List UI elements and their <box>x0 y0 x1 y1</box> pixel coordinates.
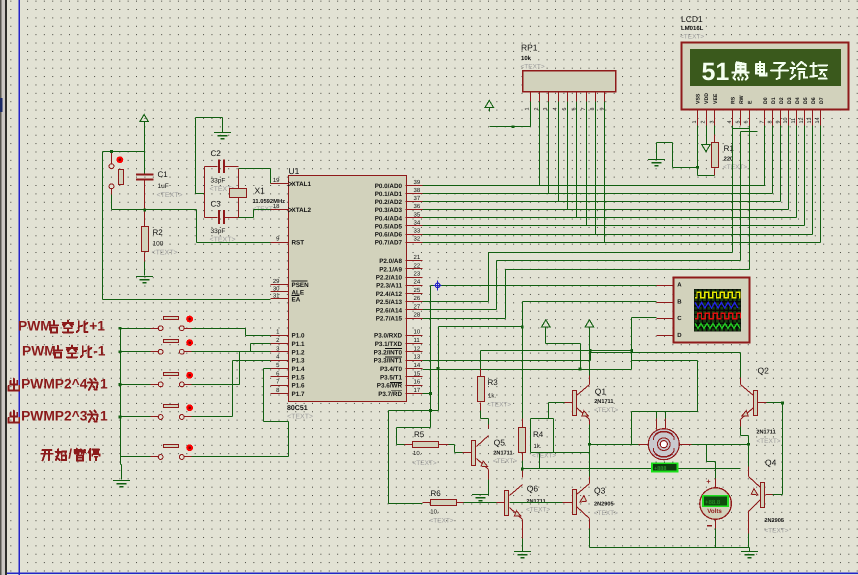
svg-text:<TEXT>: <TEXT> <box>756 438 780 445</box>
push button reset <box>109 164 114 169</box>
svg-text:33pF: 33pF <box>211 228 226 235</box>
svg-text:30: 30 <box>273 285 280 292</box>
svg-text:P3.0/RXD: P3.0/RXD <box>374 333 402 340</box>
pin 14 P3.4/T0 <box>406 368 423 370</box>
svg-text:D: D <box>677 332 682 339</box>
svg-text:<TEXT>: <TEXT> <box>157 192 183 199</box>
svg-text:P3.4/T0: P3.4/T0 <box>380 366 403 373</box>
wire LCD D6 drop <box>812 126 814 235</box>
LCD1 LM016L display <box>682 43 849 110</box>
wire Q2 emitter chain <box>740 420 742 427</box>
svg-text:C1: C1 <box>158 170 169 179</box>
wire R1 bottom / VSS / ground <box>714 169 716 176</box>
wire LCD D0 drop <box>764 126 766 186</box>
wire XTAL1 <box>239 168 271 170</box>
ground LCD <box>648 160 665 166</box>
svg-text:P3.2/INT0: P3.2/INT0 <box>374 349 403 356</box>
ground Q6 <box>514 552 531 558</box>
svg-text:10.: 10. <box>430 509 439 516</box>
pin 5 LCD RW <box>740 109 742 126</box>
pin 6 RP1 <box>576 93 578 102</box>
wire XTAL2 <box>239 217 254 219</box>
pin 2 RP1 <box>539 93 541 102</box>
transistor Q5 2N1711 <box>472 441 476 466</box>
svg-text:Q3: Q3 <box>594 486 606 496</box>
resistor R2 <box>142 227 149 252</box>
wire button common <box>120 329 122 465</box>
svg-text:P1.7: P1.7 <box>292 391 305 398</box>
svg-text:P2.2/A10: P2.2/A10 <box>376 275 403 282</box>
svg-text:<TEXT>: <TEXT> <box>413 460 437 467</box>
pin 33 P0.6/AD6 <box>406 234 423 236</box>
pin 29 PSEN <box>271 284 289 286</box>
pin 1 P1.0 <box>271 335 289 337</box>
pin 9 RP1 <box>604 93 606 102</box>
svg-text:PWMP2^3: PWMP2^3 <box>21 408 88 423</box>
svg-text:+: + <box>706 477 711 486</box>
pin 9 RST <box>271 242 289 244</box>
svg-text:11: 11 <box>791 118 797 124</box>
wire RP1 pin4 drop <box>558 102 560 202</box>
pin 22 P2.1/A9 <box>406 268 423 270</box>
wire P0.7 bus <box>423 242 821 244</box>
pin 8 LCD D1 <box>772 109 774 126</box>
pin 16 P3.6/WR <box>406 385 423 387</box>
svg-text:+1: +1 <box>89 318 105 333</box>
sheet corner marker <box>14 568 24 575</box>
resistor R6 <box>431 500 457 506</box>
svg-text:21: 21 <box>414 254 421 261</box>
wire to P1.0 <box>192 328 246 330</box>
pin 10 LCD D3 <box>788 109 790 126</box>
wire mid links <box>530 419 532 453</box>
wire RP1 pin9 drop <box>604 102 606 243</box>
pin 8 P1.7 <box>271 393 289 395</box>
wire P3.7 tap <box>423 393 431 395</box>
svg-text:P3.7/RD: P3.7/RD <box>378 391 402 398</box>
svg-text:PSEN: PSEN <box>292 282 310 289</box>
wire LCD D7 drop <box>820 126 822 243</box>
svg-text:D7: D7 <box>819 97 825 104</box>
svg-text:80C51: 80C51 <box>287 405 308 412</box>
svg-text:U1: U1 <box>289 166 300 176</box>
resistor pack RP1 <box>523 71 616 92</box>
node marker blue cross <box>434 280 442 290</box>
wire scope A net (P3.7/R5) <box>431 285 657 287</box>
scope waveform B blue <box>695 302 738 308</box>
svg-text:P0.3/AD3: P0.3/AD3 <box>375 207 403 214</box>
svg-text:P2.4/A12: P2.4/A12 <box>376 291 403 298</box>
svg-text:XTAL1: XTAL1 <box>292 181 312 188</box>
pin 21 P2.0/A8 <box>406 260 423 262</box>
wire RS/RW/E jogs <box>733 128 750 130</box>
pin 28 P2.7/A15 <box>406 318 423 320</box>
svg-text:D4: D4 <box>795 97 801 104</box>
svg-text:P2.5/A13: P2.5/A13 <box>376 299 403 306</box>
svg-text:P1.6: P1.6 <box>292 383 305 390</box>
capacitor C2 <box>219 159 224 173</box>
pin 12 P3.2/INT0 <box>406 351 423 353</box>
push button B3 <box>158 382 163 387</box>
push button B2 <box>158 349 163 354</box>
svg-text:P0.0/AD0: P0.0/AD0 <box>375 183 403 190</box>
svg-text:P1.4: P1.4 <box>292 366 305 373</box>
voltmeter <box>700 488 732 520</box>
wire motor left <box>639 444 649 446</box>
svg-text:P2.6/A14: P2.6/A14 <box>376 307 403 314</box>
svg-text:P3.5/T1: P3.5/T1 <box>380 374 403 381</box>
svg-text:<TEXT>: <TEXT> <box>680 34 704 41</box>
pin 11 LCD D4 <box>796 109 798 126</box>
wire <box>103 151 145 153</box>
svg-text:33: 33 <box>414 227 421 234</box>
wire VCC to Q2 collector <box>590 352 741 354</box>
resistor R3 <box>478 377 485 402</box>
pin 7 RP1 <box>586 93 588 102</box>
wire RP1 pin6 drop <box>576 102 578 218</box>
wire R4 stubs <box>522 419 524 428</box>
svg-text:VDD: VDD <box>704 93 710 104</box>
svg-text:17: 17 <box>414 387 421 394</box>
wire to P1.4 squiggle <box>192 456 289 458</box>
svg-text:39: 39 <box>414 179 421 186</box>
resistor R5 <box>413 442 439 448</box>
wire <box>545 331 547 344</box>
wire motor right <box>680 444 692 446</box>
svg-text:2N1711: 2N1711 <box>526 499 545 505</box>
wire motor top link <box>632 411 698 413</box>
push button B5 <box>158 455 163 460</box>
svg-text:3: 3 <box>709 121 715 124</box>
pin 4 RP1 <box>558 93 560 102</box>
svg-text:VEE: VEE <box>713 93 719 104</box>
pin 9 LCD D2 <box>780 109 782 126</box>
svg-text:37: 37 <box>414 195 421 202</box>
svg-text:+888: +888 <box>654 466 666 472</box>
svg-text:-1: -1 <box>93 343 106 358</box>
wire <box>144 253 146 262</box>
pin 7 LCD D0 <box>764 109 766 126</box>
pin 7 P1.6 <box>271 385 289 387</box>
svg-text:P0.6/AD6: P0.6/AD6 <box>375 231 403 238</box>
svg-text:D1: D1 <box>771 97 777 104</box>
wire cap common <box>204 167 206 218</box>
svg-text:7: 7 <box>581 108 587 111</box>
wire <box>144 126 146 174</box>
svg-text:15: 15 <box>414 370 421 377</box>
pin 13 P3.3/INT1 <box>406 360 423 362</box>
svg-text:VSS: VSS <box>696 93 702 104</box>
svg-text:35: 35 <box>414 211 421 218</box>
push button B4 <box>158 415 163 420</box>
svg-text:<TEXT>: <TEXT> <box>723 164 747 171</box>
node label start/pause <box>42 449 51 451</box>
svg-text:P3.3/INT1: P3.3/INT1 <box>374 358 403 365</box>
ground Q5 <box>472 495 489 501</box>
pin 3 P1.2 <box>271 351 289 353</box>
svg-text:34: 34 <box>414 219 421 226</box>
svg-text:13: 13 <box>414 354 421 361</box>
pin 18 XTAL2 <box>271 209 289 211</box>
pin 3 RP1 <box>548 93 550 102</box>
svg-text:23: 23 <box>414 271 421 278</box>
svg-text:P0.1/AD1: P0.1/AD1 <box>375 191 403 198</box>
wire scope C net (R3 top) <box>631 318 633 370</box>
transistor Q3 2N2905 <box>573 490 577 515</box>
svg-text:P3.1/TXD: P3.1/TXD <box>375 341 403 348</box>
svg-text:RW: RW <box>739 95 745 104</box>
wire bottom rail <box>590 547 750 549</box>
svg-text:4: 4 <box>553 108 559 111</box>
svg-text:1: 1 <box>525 108 531 111</box>
wire C1 to R2 <box>144 181 146 227</box>
svg-text:D2: D2 <box>779 97 785 104</box>
svg-text:D0: D0 <box>763 97 769 104</box>
svg-text:Q6: Q6 <box>527 484 539 494</box>
sheet border blue <box>18 0 20 575</box>
svg-text:PWM: PWM <box>22 343 56 358</box>
svg-text:25: 25 <box>414 287 421 294</box>
svg-text:19: 19 <box>273 177 280 184</box>
svg-text:33pF: 33pF <box>211 178 226 185</box>
svg-text:RST: RST <box>292 240 305 247</box>
svg-text:A: A <box>677 282 682 289</box>
svg-text:36: 36 <box>414 203 421 210</box>
crystal X1 <box>238 169 240 189</box>
wire voltmeter minus <box>715 520 717 529</box>
svg-text:11.0592MHz: 11.0592MHz <box>253 198 286 205</box>
svg-text:29: 29 <box>273 278 280 285</box>
svg-text:X1: X1 <box>255 186 266 196</box>
pin 25 P2.4/A12 <box>406 293 423 295</box>
svg-text:5: 5 <box>735 121 741 124</box>
svg-text:<TEXT>: <TEXT> <box>521 64 545 71</box>
pin 15 P3.5/T1 <box>406 376 423 378</box>
svg-text:2N2905: 2N2905 <box>594 502 614 508</box>
pin 10 P3.0/RXD <box>406 335 423 337</box>
svg-text:<TEXT>: <TEXT> <box>764 528 788 535</box>
wire Q6 collector rail <box>523 468 741 470</box>
wire P3.4 drive line <box>423 369 632 371</box>
wire E chain to P2.7 <box>749 126 751 270</box>
power symbol near RP1 <box>485 100 493 107</box>
svg-text:D3: D3 <box>787 97 793 104</box>
pin 1 LCD VSS <box>697 109 699 126</box>
svg-text:XTAL2: XTAL2 <box>292 207 312 214</box>
pin 24 P2.3/A11 <box>406 285 423 287</box>
svg-text:<TEXT>: <TEXT> <box>152 250 178 257</box>
svg-text:RP1: RP1 <box>521 43 538 53</box>
svg-text:R6: R6 <box>431 489 442 498</box>
svg-text:24: 24 <box>414 279 421 286</box>
op chip U1 80C51 <box>289 176 407 402</box>
svg-text:P1.3: P1.3 <box>292 358 305 365</box>
pin 35 P0.4/AD4 <box>406 217 423 219</box>
wire Q1 collector feed <box>589 331 591 376</box>
wire R3 bottom to Q5 collector <box>480 403 482 411</box>
wire RP1 pin3 drop <box>548 102 550 194</box>
pin 17 P3.7/RD <box>406 393 423 395</box>
svg-text:E: E <box>747 100 753 104</box>
svg-text:6: 6 <box>744 121 750 124</box>
ground bottom right <box>741 552 758 558</box>
svg-text:9: 9 <box>775 121 781 124</box>
svg-text:1: 1 <box>100 376 108 391</box>
wire RP1 pin1 power <box>490 126 531 128</box>
svg-text:C2: C2 <box>211 149 222 158</box>
wire P0.3 bus <box>423 209 789 211</box>
svg-text:P2.3/A11: P2.3/A11 <box>376 283 402 290</box>
svg-text:<TEXT>: <TEXT> <box>493 458 517 465</box>
node label out PWM P2^4 <box>13 379 15 391</box>
svg-text:RS: RS <box>731 96 737 104</box>
svg-text:P1.5: P1.5 <box>292 374 305 381</box>
svg-text:C3: C3 <box>211 200 222 209</box>
svg-text:PWM: PWM <box>18 318 52 333</box>
wire P0.1 bus <box>423 193 773 195</box>
svg-text:LCD1: LCD1 <box>681 14 703 24</box>
svg-text:R2: R2 <box>153 228 164 237</box>
wire scope B net (R4 top) <box>523 301 657 303</box>
transistor Q2 2N1711 <box>754 391 758 416</box>
pin 6 P1.5 <box>271 376 289 378</box>
svg-text:1: 1 <box>100 408 108 423</box>
wire R3 top rail <box>481 350 633 352</box>
svg-text:51: 51 <box>702 58 730 86</box>
svg-text:10.: 10. <box>413 450 422 457</box>
wire P3.3 tap <box>423 360 591 362</box>
pin 5 P1.4 <box>271 368 289 370</box>
svg-text:<TEXT>: <TEXT> <box>430 518 454 525</box>
pin 36 P0.3/AD3 <box>406 209 423 211</box>
svg-text:P2.0/A8: P2.0/A8 <box>379 258 402 265</box>
wire Q2 collector <box>740 378 742 385</box>
svg-text:28: 28 <box>414 312 421 319</box>
svg-text:10k: 10k <box>521 55 532 62</box>
power symbol VCC top-left <box>140 115 148 122</box>
svg-text:18: 18 <box>273 203 280 210</box>
svg-text:1uF: 1uF <box>158 183 169 190</box>
svg-text:Q4: Q4 <box>765 458 777 468</box>
scope waveform C red <box>695 313 741 318</box>
pin 12 LCD D5 <box>804 109 806 126</box>
scope waveform D green <box>695 323 740 328</box>
pin 31 EA <box>271 298 289 300</box>
wire to P1.3 <box>192 416 233 418</box>
svg-text:32: 32 <box>414 236 421 243</box>
svg-text:D5: D5 <box>803 97 809 104</box>
svg-text:Volts: Volts <box>707 508 722 515</box>
svg-text:R3: R3 <box>488 378 499 387</box>
svg-text:C: C <box>677 315 682 322</box>
window chrome left edge <box>0 0 2 575</box>
wire Q1 base drive <box>531 418 554 420</box>
svg-text:R5: R5 <box>414 430 425 439</box>
svg-text:38: 38 <box>414 187 421 194</box>
wire LCD D2 drop <box>780 126 782 202</box>
pin 8 RP1 <box>595 93 597 102</box>
pin 14 LCD D7 <box>820 109 822 126</box>
wire RP1 pin2 drop <box>539 102 541 186</box>
wire R5 to Q5 base <box>454 445 456 453</box>
wire LCD D4 drop <box>796 126 798 218</box>
wire EA pull line <box>102 152 104 300</box>
svg-text:8: 8 <box>767 121 773 124</box>
svg-text:P1.0: P1.0 <box>292 333 305 340</box>
wire RS chain to P2.5 <box>732 126 734 253</box>
capacitor C3 <box>219 210 224 224</box>
ground buttons <box>113 481 130 487</box>
svg-text:P0.7/AD7: P0.7/AD7 <box>375 240 403 247</box>
wire VSS down <box>697 126 699 168</box>
transistor Q6 2N1711 <box>505 491 509 516</box>
svg-text:P1.2: P1.2 <box>292 349 305 356</box>
wire VEE to R1 <box>714 126 716 135</box>
wire P0.4 bus <box>423 217 797 219</box>
svg-text:2N1711: 2N1711 <box>493 451 512 457</box>
pin 19 XTAL1 <box>271 183 289 185</box>
svg-text:10: 10 <box>414 329 421 336</box>
capacitor C1 <box>136 174 154 179</box>
svg-text:14: 14 <box>414 362 421 369</box>
pin 3 LCD VEE <box>714 109 716 126</box>
svg-text:16: 16 <box>414 379 421 386</box>
svg-text:11: 11 <box>414 337 421 344</box>
svg-text:26: 26 <box>414 295 421 302</box>
svg-text:R4: R4 <box>533 430 544 439</box>
svg-text:P0.4/AD4: P0.4/AD4 <box>375 215 403 222</box>
wire R3 top <box>480 351 482 369</box>
wire RP1 pin5 drop <box>567 102 569 210</box>
svg-text:Q5: Q5 <box>494 438 506 448</box>
wire R6 to Q6 base <box>464 502 497 504</box>
node label out PWM P2^3 <box>13 411 15 423</box>
ground under R2 <box>136 277 153 283</box>
svg-text:2N2905: 2N2905 <box>764 518 784 524</box>
pin 5 RP1 <box>567 93 569 102</box>
svg-text:13: 13 <box>807 118 813 124</box>
wire Q2/Q4 base tie <box>782 403 784 495</box>
wire LCD D5 drop <box>804 126 806 226</box>
wire P0.6 bus <box>423 234 813 236</box>
svg-text:B: B <box>677 298 682 305</box>
svg-text:220: 220 <box>724 156 734 163</box>
svg-text:1: 1 <box>692 121 698 124</box>
svg-text:<TEXT>: <TEXT> <box>487 402 511 409</box>
power symbol VCC bridge left <box>542 320 550 327</box>
wire RST net <box>111 195 113 210</box>
pin 2 P1.1 <box>271 343 289 345</box>
ground crystal caps <box>222 118 224 133</box>
wire RP1 pin8 drop <box>595 102 597 235</box>
transistor Q4 2N2905 <box>761 483 765 508</box>
wire Q5 emitter to ground <box>488 470 490 480</box>
wire R6 feed <box>389 410 439 412</box>
wire Q2 base <box>758 402 767 404</box>
svg-text:<TEXT>: <TEXT> <box>210 237 236 244</box>
wire LCD D1 drop <box>772 126 774 194</box>
pin 4 LCD RS <box>732 109 734 126</box>
wire LCD D3 drop <box>788 126 790 210</box>
svg-text:<TEXT>: <TEXT> <box>287 414 313 421</box>
svg-text:LM016L: LM016L <box>681 25 704 32</box>
wire Q6 emitter ground <box>522 520 524 539</box>
pin 2 LCD VDD <box>706 109 708 126</box>
motor terminals top <box>656 419 658 430</box>
pin 23 P2.2/A10 <box>406 277 423 279</box>
dc motor <box>648 429 679 460</box>
pin 38 P0.1/AD1 <box>406 193 423 195</box>
